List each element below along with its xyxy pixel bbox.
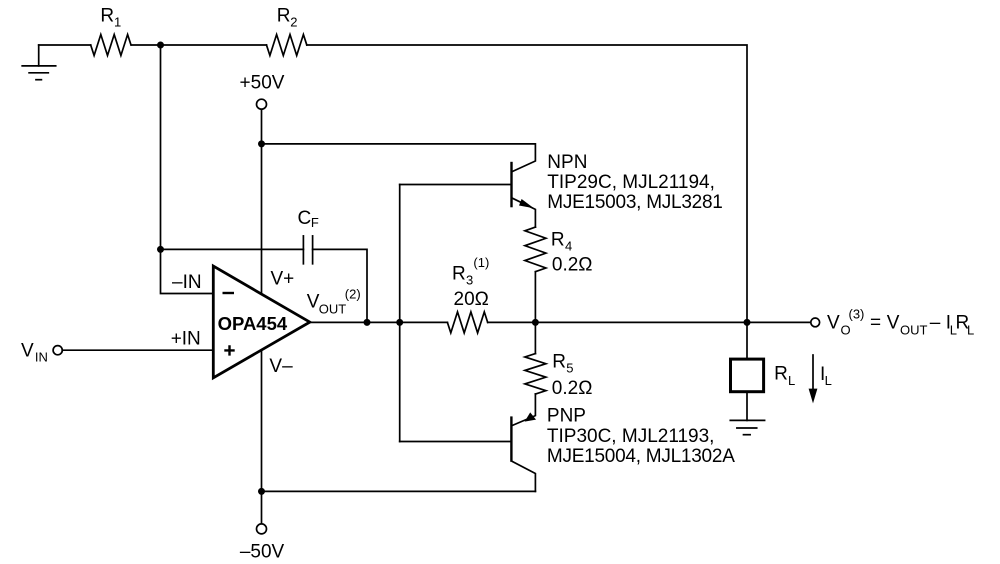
wire PNP collector to -50V rail [262, 490, 536, 492]
capacitor CF [302, 236, 304, 264]
svg-text:MJE15004, MJL1302A: MJE15004, MJL1302A [547, 446, 735, 467]
transistor Q1 NPN [512, 162, 536, 227]
svg-text:V: V [827, 313, 840, 334]
node B (feedback junction) [157, 246, 164, 253]
wire feedback vertical from node A to -IN [161, 45, 212, 294]
wire +50V down to V+ [261, 109, 263, 294]
svg-text:R: R [452, 264, 466, 285]
wire output line to R5 [534, 322, 536, 353]
svg-text:–IN: –IN [172, 272, 202, 293]
svg-text:+IN: +IN [171, 328, 201, 349]
svg-text:L: L [967, 322, 974, 337]
transistor Q2 PNP [511, 394, 536, 491]
wire RL to ground [746, 392, 748, 421]
minus sign inside op-amp [223, 292, 235, 294]
svg-text:(2): (2) [345, 287, 361, 302]
node D (-50V rail junction) [258, 488, 265, 495]
svg-text:OUT: OUT [319, 301, 347, 316]
output wire from op-amp [310, 321, 448, 323]
svg-text:V: V [21, 341, 34, 362]
wire output node down to RL [746, 322, 748, 359]
svg-text:V: V [307, 291, 320, 312]
wire CF to VOUT node [313, 249, 367, 322]
svg-text:+50V: +50V [240, 73, 285, 94]
wire R1 to R2 [131, 44, 266, 46]
wire ground to R1 [39, 44, 91, 46]
svg-text:V: V [887, 313, 900, 334]
resistor R5 [525, 354, 546, 394]
svg-text:=: = [870, 313, 881, 334]
resistor R4 [525, 227, 546, 272]
wire R2 to output node (top right) [307, 45, 747, 322]
svg-text:(3): (3) [849, 307, 865, 322]
svg-text:R: R [277, 5, 291, 26]
resistor R2 [267, 35, 307, 56]
svg-text:(1): (1) [473, 255, 489, 270]
resistor RL (box) [731, 359, 764, 392]
node G (R4/R5 emitter junction) [532, 319, 539, 326]
svg-text:L: L [788, 373, 795, 388]
svg-text:L: L [825, 373, 832, 388]
svg-text:PNP: PNP [547, 406, 586, 427]
svg-text:IN: IN [35, 350, 48, 365]
plus sign inside op-amp [224, 345, 234, 355]
svg-text:NPN: NPN [547, 152, 587, 173]
wire +50V rail to NPN collector [262, 144, 536, 172]
svg-text:V–: V– [269, 356, 293, 377]
svg-text:TIP30C, MJL21193,: TIP30C, MJL21193, [547, 426, 715, 447]
wire R4 to output line [534, 272, 536, 323]
op-amp U1 OPA454 [213, 266, 309, 378]
wire base rail vertical [399, 185, 401, 442]
wire VIN to +IN [62, 349, 212, 351]
svg-text:3: 3 [466, 273, 473, 288]
svg-text:4: 4 [565, 238, 572, 253]
wire node B to CF [161, 248, 304, 250]
svg-text:0.2Ω: 0.2Ω [552, 254, 593, 275]
svg-text:1: 1 [114, 15, 121, 30]
ground (top-left) [22, 45, 56, 80]
svg-text:–: – [930, 313, 941, 334]
svg-text:2: 2 [290, 15, 297, 30]
svg-text:0.2Ω: 0.2Ω [552, 378, 593, 399]
svg-text:R: R [551, 229, 565, 250]
svg-text:R: R [100, 5, 114, 26]
svg-text:R: R [774, 364, 788, 385]
node C (+50V rail junction) [258, 140, 265, 147]
svg-text:5: 5 [566, 361, 573, 376]
svg-text:O: O [841, 322, 851, 337]
resistor R3 [447, 312, 487, 333]
label VO(3) = VOUT - IL RL [827, 307, 974, 338]
-50V supply [257, 524, 267, 534]
svg-text:–50V: –50V [240, 541, 285, 562]
ground (under RL) [730, 420, 764, 434]
node F (base rail / output junction) [396, 319, 403, 326]
svg-text:C: C [298, 208, 312, 229]
svg-text:F: F [311, 215, 319, 230]
wire NPN base [400, 184, 511, 186]
resistor R1 [91, 35, 131, 56]
svg-text:MJE15003, MJL3281: MJE15003, MJL3281 [547, 192, 722, 213]
IL current arrow [809, 355, 818, 403]
svg-text:OPA454: OPA454 [218, 313, 288, 334]
svg-text:20Ω: 20Ω [454, 289, 489, 310]
node E (CF feedback / output junction) [364, 319, 371, 326]
output terminal circle [811, 318, 820, 327]
svg-text:OUT: OUT [900, 322, 928, 337]
node H (output / RL junction) [744, 319, 751, 326]
wire R3 to output circle [488, 321, 811, 323]
svg-text:TIP29C, MJL21194,: TIP29C, MJL21194, [547, 172, 715, 193]
wire V- down to -50V [261, 350, 263, 524]
wire PNP base [400, 441, 511, 443]
svg-text:R: R [552, 351, 566, 372]
node A (R1/R2 junction) [157, 42, 164, 49]
svg-text:V+: V+ [271, 269, 295, 290]
